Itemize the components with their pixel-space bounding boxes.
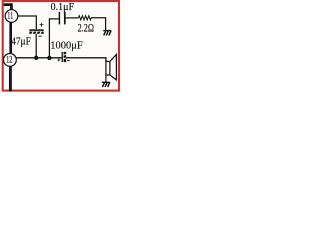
speaker cone: [110, 55, 117, 80]
bus wire between node 11 and node 12: [9, 22, 12, 53]
bus wire below node 12: [9, 66, 12, 91]
junction dot riser to bottom wire: [47, 56, 51, 60]
minus polarity mark of C1: [38, 35, 42, 37]
wire riser from bottom wire up to Zobel branch: [49, 19, 58, 58]
capacitor C1 47uF polarized, top plate: [29, 29, 43, 31]
ground symbol top right: [103, 31, 111, 36]
ground symbol below speaker: [102, 82, 110, 87]
svg-text:1000μF: 1000μF: [50, 39, 82, 51]
capacitor C3 hatched negative plate: [63, 52, 66, 62]
wire lead from C1 down to bottom wire: [35, 34, 37, 58]
bus wire top segment into node 11: [4, 5, 12, 11]
resistor R1 zigzag: [78, 16, 91, 20]
svg-text:11: 11: [7, 11, 13, 21]
node 12 terminal circle: [3, 54, 16, 67]
junction dot C1 to bottom wire: [34, 56, 38, 60]
capacitor C3 1000uF solid positive plate: [61, 52, 63, 62]
wire from node 11 to capacitor C1: [18, 16, 37, 29]
capacitor C2 0.1uF plates: [59, 12, 64, 25]
minus polarity mark of C3: [67, 60, 70, 62]
wire stem from speaker to ground: [105, 75, 107, 82]
svg-text:47μF: 47μF: [11, 36, 31, 48]
speaker driver rectangle: [106, 61, 110, 75]
plus polarity mark of C3: [57, 59, 60, 62]
svg-text:12: 12: [6, 55, 12, 65]
bottom wire from node 12 to capacitor C3: [16, 57, 62, 59]
plus polarity mark of C1: [40, 23, 44, 27]
capacitor C1 hatched negative plate: [29, 31, 43, 34]
svg-text:2.2Ω: 2.2Ω: [78, 22, 94, 34]
svg-text:0.1μF: 0.1μF: [51, 1, 74, 13]
wire from C2 to resistor R1: [66, 17, 79, 19]
wire from R1 to ground stem: [91, 18, 106, 30]
node 11 terminal circle: [5, 10, 18, 23]
wire from C3 to speaker: [66, 58, 106, 62]
